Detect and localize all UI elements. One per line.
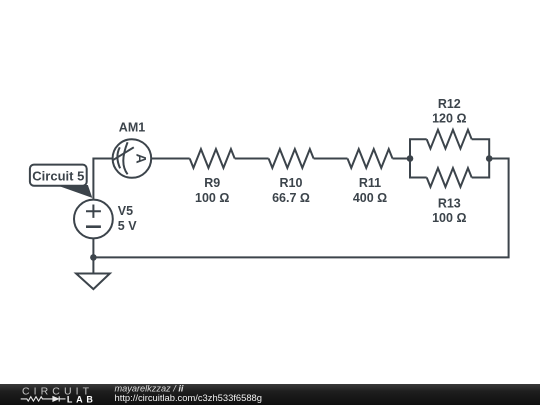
ground node junction dot — [90, 254, 97, 261]
svg-text:100 Ω: 100 Ω — [432, 211, 466, 225]
svg-text:R10: R10 — [280, 176, 303, 190]
wire V5 top to ammeter — [93, 159, 112, 200]
resistor R12 — [427, 130, 472, 149]
svg-text:120 Ω: 120 Ω — [432, 112, 466, 126]
svg-text:400 Ω: 400 Ω — [353, 191, 387, 205]
ammeter AM1 — [113, 139, 152, 178]
svg-text:A: A — [133, 154, 149, 164]
svg-text:5 V: 5 V — [118, 219, 137, 233]
svg-text:R9: R9 — [204, 176, 220, 190]
resistor R10 — [269, 149, 314, 168]
svg-text:Circuit 5: Circuit 5 — [32, 169, 84, 184]
svg-text:R13: R13 — [438, 196, 461, 210]
svg-text:LAB: LAB — [67, 394, 94, 404]
node A junction dot — [407, 155, 414, 162]
svg-text:R12: R12 — [438, 97, 461, 111]
resistor R13 — [427, 168, 472, 187]
resistor R9 — [190, 149, 235, 168]
svg-text:100 Ω: 100 Ω — [195, 191, 229, 205]
resistor R11 — [348, 149, 393, 168]
node B junction dot — [486, 155, 493, 162]
wire bottom branch left — [410, 159, 427, 178]
wire node B to bottom rail — [93, 159, 508, 258]
wire R10 to R11 — [314, 158, 348, 160]
svg-text:http://circuitlab.com/c3zh533f: http://circuitlab.com/c3zh533f6588g — [115, 392, 262, 403]
footer bar — [0, 384, 540, 405]
logo resistor-diode symbol — [21, 396, 66, 401]
ground — [92, 257, 94, 273]
svg-text:V5: V5 — [118, 204, 133, 218]
wire R9 to R10 — [235, 158, 269, 160]
Circuit 5 callout box — [30, 165, 87, 186]
voltage source V5 — [74, 200, 113, 239]
svg-text:AM1: AM1 — [119, 120, 145, 134]
Circuit 5 callout pointer — [59, 186, 92, 198]
svg-text:R11: R11 — [359, 176, 381, 190]
wire top branch right — [472, 139, 490, 158]
wire ammeter to R9 — [151, 158, 190, 160]
wire R11 to node A — [393, 158, 411, 160]
wire top branch left — [410, 139, 427, 158]
wire bottom branch right — [472, 159, 490, 178]
svg-text:66.7 Ω: 66.7 Ω — [272, 191, 310, 205]
wire V5 bottom stub — [92, 238, 94, 257]
